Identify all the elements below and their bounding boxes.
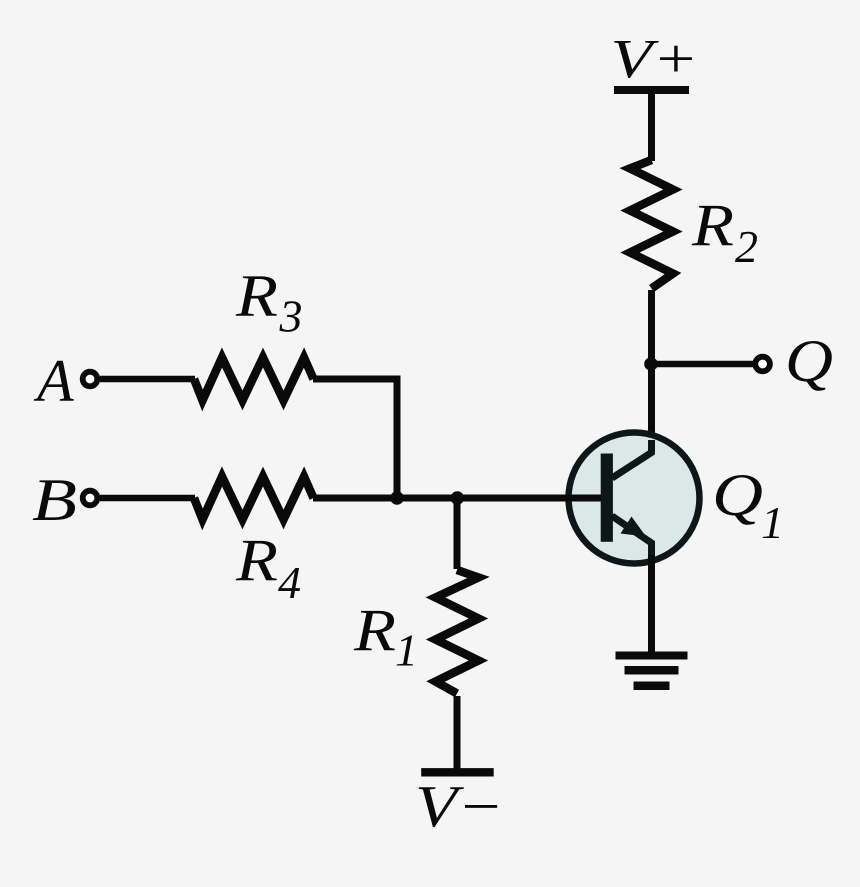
- svg-text:2: 2: [735, 221, 758, 272]
- svg-text:R: R: [353, 598, 396, 664]
- transistor Q1 emitter stroke: [612, 516, 652, 563]
- ground bar 2: [625, 666, 679, 675]
- svg-text:V+: V+: [611, 28, 699, 89]
- wire A to R3: [100, 376, 195, 383]
- resistor R4: [194, 477, 314, 520]
- svg-text:R: R: [235, 528, 278, 594]
- transistor Q1 base bar: [601, 454, 613, 542]
- svg-text:A: A: [33, 348, 74, 414]
- resistor R3: [194, 358, 314, 401]
- transistor Q1 body circle: [569, 433, 700, 564]
- wire base node down to R1: [454, 498, 461, 569]
- wire R1 to V- bar: [454, 696, 461, 769]
- V+ supply bar: [614, 86, 689, 94]
- svg-text:Q: Q: [712, 462, 763, 528]
- transistor Q1 collector stroke: [612, 440, 652, 478]
- ground bar 3: [634, 682, 670, 691]
- svg-text:R: R: [235, 263, 278, 329]
- terminal A (open circle): [83, 372, 98, 387]
- resistor R2: [630, 160, 673, 289]
- svg-text:V−: V−: [415, 773, 504, 839]
- wire R4 to base: [313, 495, 601, 502]
- terminal B (open circle): [83, 491, 98, 506]
- wire R2 to node: [648, 290, 655, 364]
- wire emitter to ground: [648, 555, 655, 652]
- wire collector vertical: [648, 364, 655, 453]
- V- supply bar: [421, 768, 494, 776]
- svg-text:1: 1: [395, 625, 418, 676]
- svg-text:R: R: [691, 193, 734, 259]
- node junction dot right (base node): [451, 491, 465, 505]
- node junction dot left (R3/R4 node): [390, 491, 404, 505]
- resistor R1: [436, 570, 479, 694]
- svg-text:Q: Q: [785, 328, 833, 394]
- wire V+ bar to R2: [648, 94, 655, 161]
- wire B to R4: [100, 495, 195, 502]
- wire node to Q terminal: [651, 361, 753, 368]
- terminal Q (open circle): [755, 357, 770, 372]
- svg-text:B: B: [32, 467, 77, 533]
- transistor Q1 emitter arrowhead: [621, 517, 647, 537]
- svg-text:1: 1: [761, 497, 784, 548]
- node junction dot (collector node): [644, 357, 658, 371]
- svg-text:3: 3: [279, 291, 303, 342]
- ground bar 1: [616, 652, 688, 660]
- svg-text:4: 4: [278, 557, 301, 608]
- wire R3 to corner and down to node: [313, 379, 397, 498]
